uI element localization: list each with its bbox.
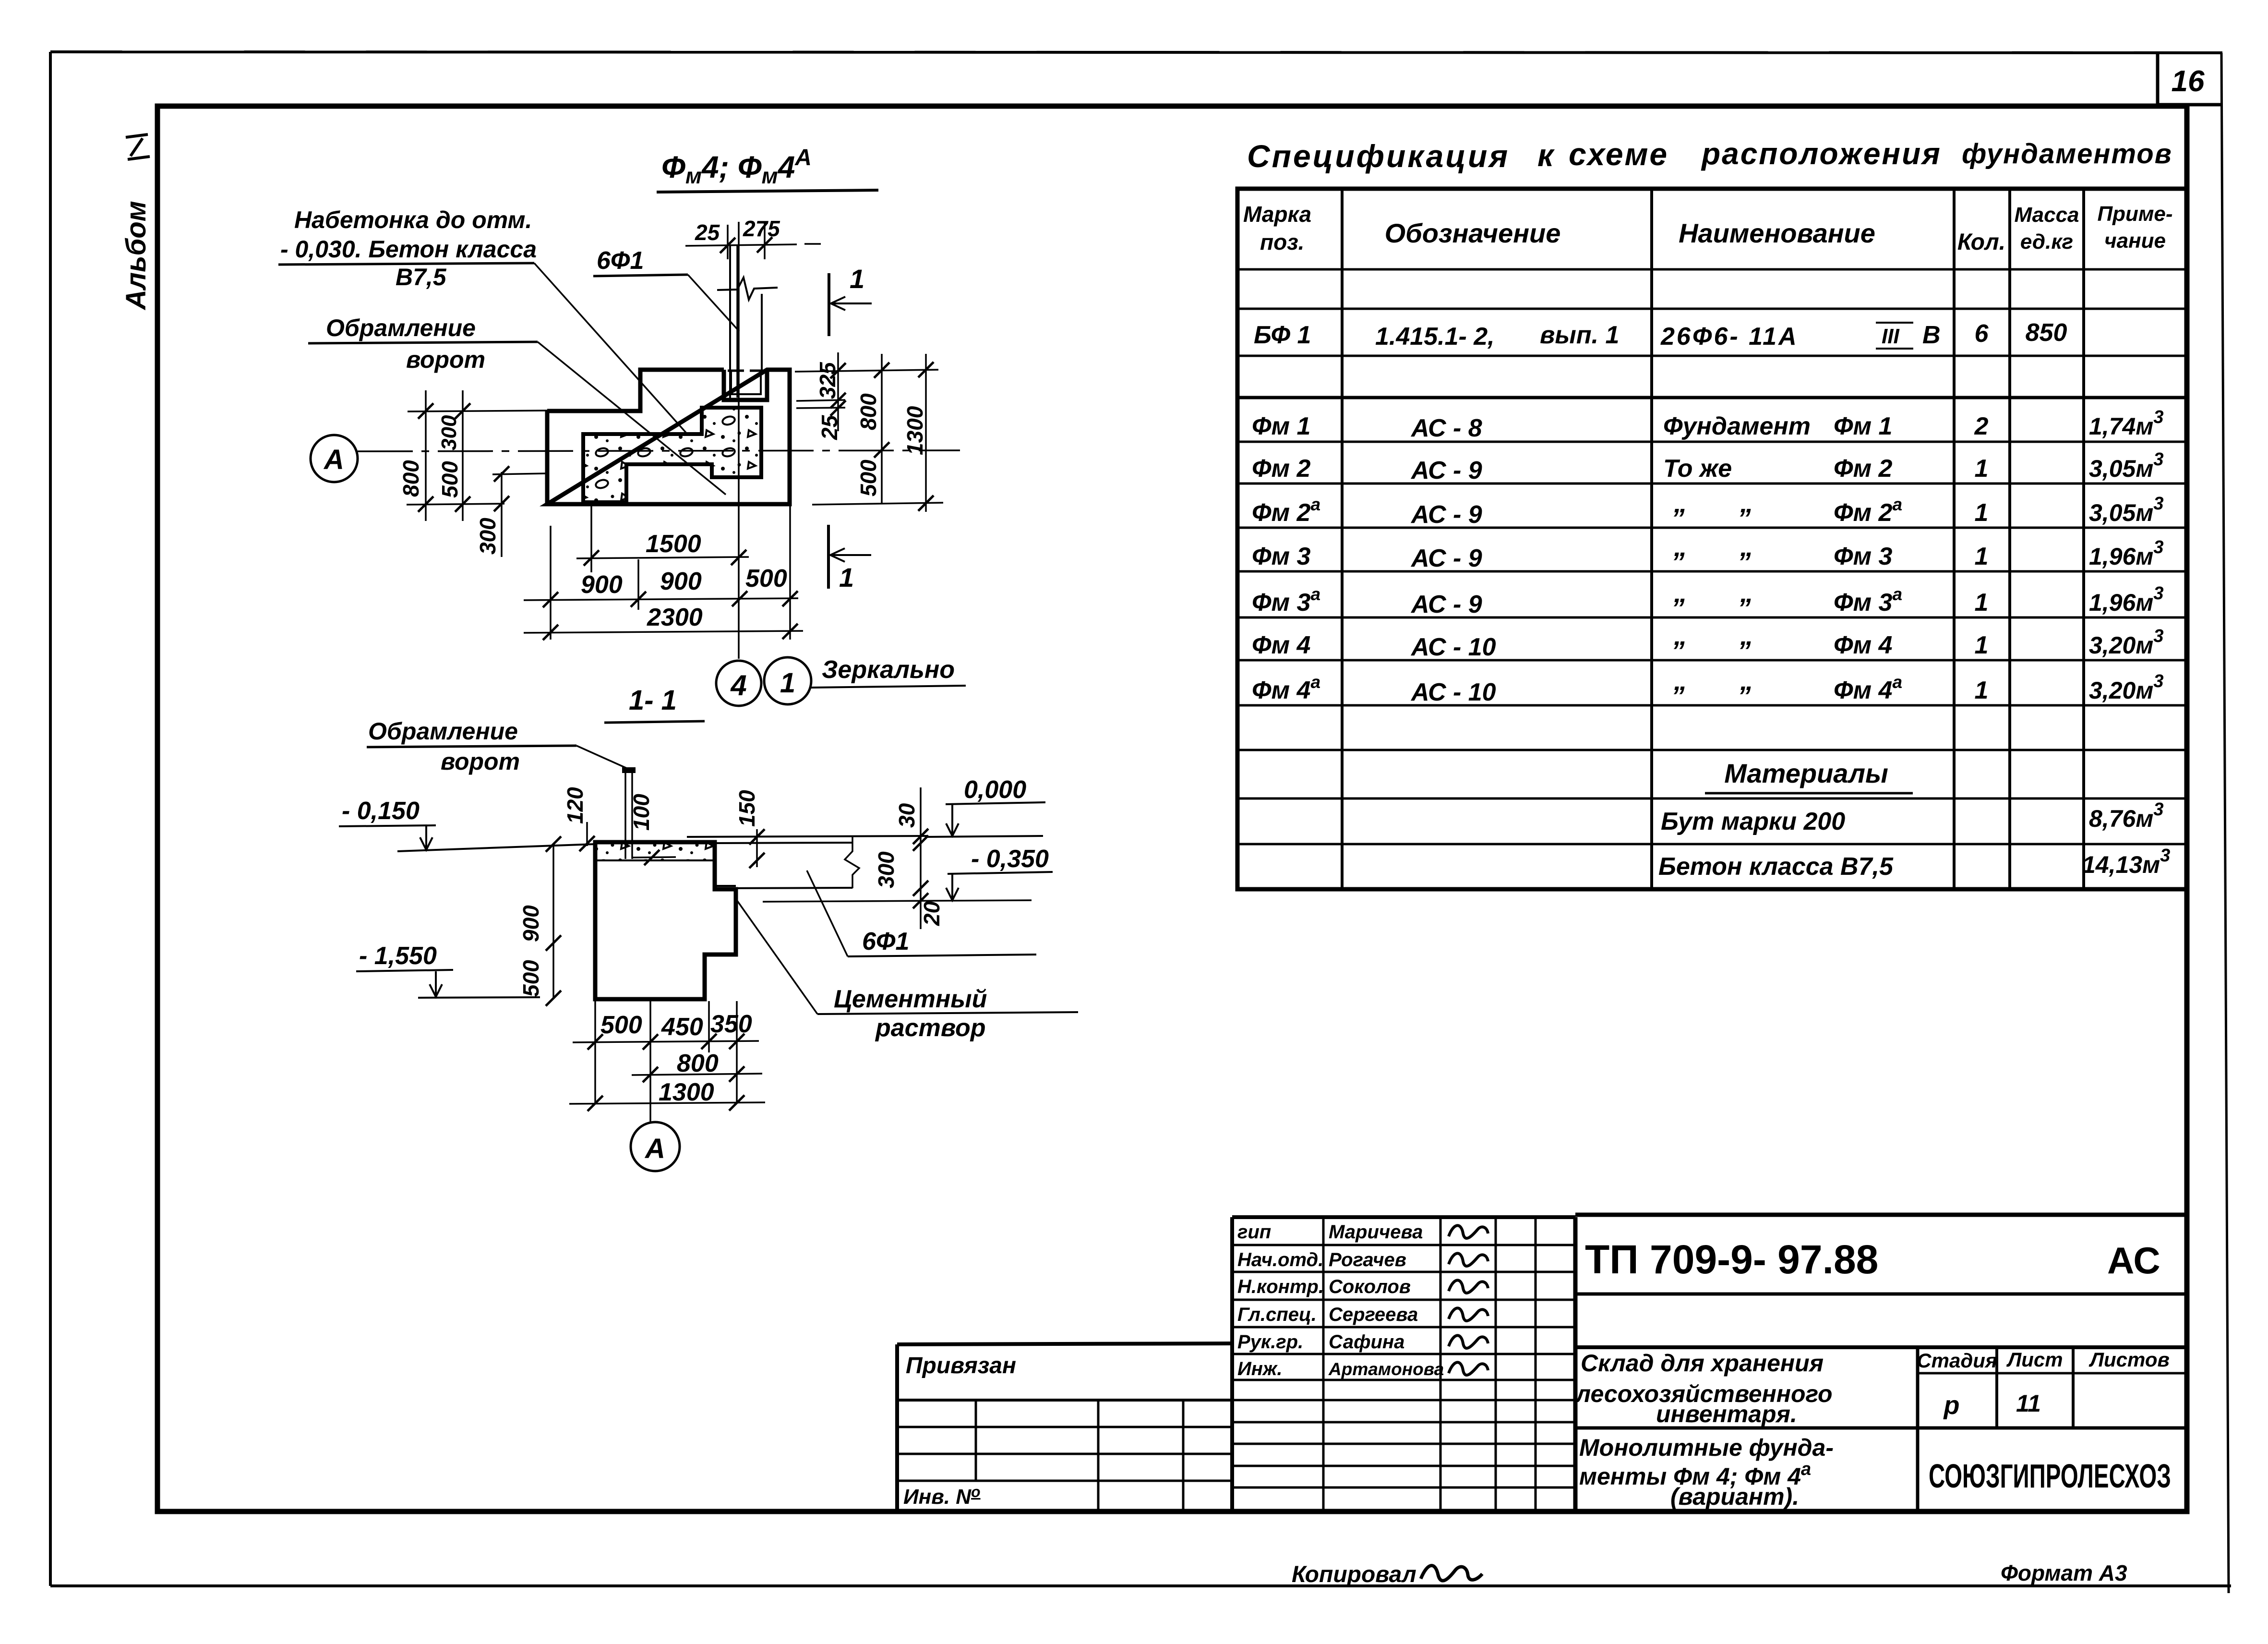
title block: Привязан box (897, 1343, 1232, 1511)
svg-text:Стадия: Стадия (1917, 1349, 1997, 1372)
svg-text:500: 500 (437, 461, 462, 498)
svg-text:1: 1 (1975, 455, 1989, 483)
plan: axis circle А (left) (311, 435, 358, 482)
svg-text:„: „ (1740, 620, 1753, 651)
section: right dims 30 / 300 / 20 (874, 787, 944, 929)
svg-text:16: 16 (2172, 65, 2205, 98)
svg-text:900: 900 (518, 905, 543, 942)
plan: vertical axis line through column (738, 222, 740, 659)
svg-text:800: 800 (856, 393, 881, 430)
svg-text:Соколов: Соколов (1329, 1276, 1411, 1297)
svg-text:А: А (323, 444, 344, 475)
svg-text:Н.контр.: Н.контр. (1237, 1276, 1324, 1297)
svg-text:ворот: ворот (441, 748, 520, 775)
svg-text:300: 300 (475, 518, 500, 555)
svg-text:1: 1 (850, 264, 864, 294)
svg-text:4: 4 (730, 669, 746, 701)
svg-text:275: 275 (743, 216, 780, 241)
svg-text:Фм 2a: Фм 2a (1834, 495, 1902, 527)
svg-text:СОЮЗГИПРОЛЕСХОЗ: СОЮЗГИПРОЛЕСХОЗ (1929, 1457, 2171, 1495)
svg-text:120: 120 (563, 787, 588, 824)
bottom: Копировал + signature (1292, 1562, 1482, 1587)
svg-text:гип: гип (1237, 1221, 1271, 1243)
svg-text:Копировал: Копировал (1292, 1562, 1416, 1587)
section: anchor bolt (622, 767, 636, 859)
svg-text:- 0,350: - 0,350 (971, 845, 1049, 873)
section: level mark -0,150 (339, 797, 436, 850)
svg-text:Монолитные фунда-: Монолитные фунда- (1579, 1434, 1834, 1461)
svg-text:Нач.отд.: Нач.отд. (1237, 1249, 1323, 1270)
svg-text:500: 500 (600, 1011, 642, 1039)
title block: right part grid (1575, 1215, 2187, 1511)
svg-text:- 0,150: - 0,150 (342, 797, 420, 825)
svg-text:850: 850 (2026, 319, 2067, 347)
section: level mark 0,000 (927, 776, 1045, 837)
plan: view circles 4 and 1 with Зеркально (716, 656, 966, 706)
svg-text:350: 350 (710, 1010, 752, 1038)
svg-text:25: 25 (695, 220, 720, 245)
svg-text:Альбом: Альбом (120, 201, 152, 311)
plan title Фм4; Фм4А (657, 145, 878, 192)
section: ground line left (397, 844, 595, 851)
svg-text:Фм 3a: Фм 3a (1252, 584, 1320, 616)
title block: handwritten signatures (1449, 1225, 1488, 1375)
svg-text:Лист: Лист (2006, 1348, 2063, 1371)
svg-text:Фм 4: Фм 4 (1834, 631, 1893, 659)
svg-text:6Ф1: 6Ф1 (597, 247, 644, 275)
svg-text:1: 1 (839, 562, 854, 592)
svg-text:Фм 4a: Фм 4a (1252, 672, 1320, 704)
svg-text:Бетон класса В7,5: Бетон класса В7,5 (1658, 853, 1894, 881)
svg-text:Рогачев: Рогачев (1329, 1249, 1406, 1270)
svg-text:Кол.: Кол. (1957, 230, 2005, 255)
svg-text:Обрамление: Обрамление (368, 718, 518, 745)
svg-text:500: 500 (745, 565, 787, 592)
label Обрамление ворот (section) (367, 718, 628, 775)
svg-text:6Ф1: 6Ф1 (862, 928, 909, 955)
svg-text:450: 450 (661, 1013, 703, 1041)
svg-text:Фм 3: Фм 3 (1252, 543, 1311, 570)
svg-text:Фм 1: Фм 1 (1834, 412, 1892, 440)
svg-text:БФ 1: БФ 1 (1254, 321, 1311, 349)
title block: stage/sheet headers (1917, 1348, 2170, 1420)
svg-text:500: 500 (518, 960, 543, 997)
section: foundation body outline (595, 842, 736, 999)
plan: left-side dimensions 300/800/500/300 (398, 390, 547, 557)
svg-text:АС - 9: АС - 9 (1410, 591, 1482, 618)
svg-text:раствор: раствор (875, 1014, 985, 1042)
svg-text:20: 20 (919, 901, 944, 926)
svg-text:„: „ (1673, 620, 1687, 651)
svg-text:„: „ (1740, 488, 1753, 518)
section: mortar joint on step (715, 886, 736, 889)
svg-text:инвентаря.: инвентаря. (1656, 1401, 1797, 1427)
plan: precast column 6Ф1 edges above socket (730, 246, 762, 399)
svg-text:расположения: расположения (1701, 136, 1942, 171)
svg-text:Рук.гр.: Рук.гр. (1237, 1331, 1303, 1353)
svg-text:1: 1 (1975, 589, 1989, 616)
svg-text:500: 500 (856, 459, 881, 496)
title block: project name (1575, 1350, 1833, 1427)
svg-text:Привязан: Привязан (906, 1353, 1016, 1378)
svg-text:поз.: поз. (1260, 230, 1304, 254)
section: label 6Ф1 with leader (807, 870, 1036, 956)
svg-text:АС - 8: АС - 8 (1410, 414, 1482, 442)
svg-text:АС: АС (2107, 1239, 2160, 1281)
svg-text:2: 2 (1974, 412, 1989, 440)
svg-text:„: „ (1673, 488, 1687, 518)
svg-text:26Ф6- 11А: 26Ф6- 11А (1660, 323, 1799, 351)
svg-text:„: „ (1673, 532, 1687, 562)
plan: section mark 1 (bottom) (828, 525, 871, 592)
svg-text:Обозначение: Обозначение (1385, 218, 1561, 248)
materials section (1658, 758, 2170, 881)
section: level mark -1,550 (356, 942, 540, 998)
svg-text:Фм 2a: Фм 2a (1252, 495, 1320, 527)
svg-text:300: 300 (437, 415, 461, 450)
svg-text:Спецификация: Спецификация (1247, 138, 1510, 174)
section: bottom dims 500/450/350, 800, 1300 (569, 1001, 765, 1124)
svg-text:к: к (1537, 137, 1555, 173)
svg-text:Фм4; Фм4А: Фм4; Фм4А (661, 145, 812, 188)
plan: axis A centerline (horizontal) (358, 450, 960, 451)
svg-text:ТП 709-9- 97.88: ТП 709-9- 97.88 (1585, 1237, 1878, 1282)
svg-text:„: „ (1740, 665, 1753, 696)
svg-text:Сергеева: Сергеева (1329, 1304, 1418, 1325)
svg-text:В: В (1922, 321, 1941, 349)
specification table title (1247, 136, 2172, 174)
svg-text:1: 1 (1975, 677, 1989, 704)
svg-text:100: 100 (629, 794, 654, 831)
row БФ1 (1254, 319, 2067, 351)
svg-text:30: 30 (894, 803, 919, 828)
svg-text:Инж.: Инж. (1237, 1358, 1283, 1379)
svg-text:То же: То же (1663, 455, 1732, 483)
svg-text:АС - 9: АС - 9 (1410, 457, 1482, 484)
svg-text:Фм 4a: Фм 4a (1834, 672, 1902, 704)
svg-text:900: 900 (660, 568, 702, 595)
sheet number box (16) (2158, 53, 2222, 106)
section: left vertical dims 120 / 900 / 500 (518, 787, 595, 1006)
plan: column break symbol (717, 278, 778, 300)
title block: signature rows texts (1237, 1221, 1444, 1379)
svg-text:800: 800 (398, 460, 423, 497)
svg-text:III: III (1882, 325, 1899, 348)
svg-text:1: 1 (1975, 631, 1989, 659)
svg-text:11: 11 (2016, 1390, 2041, 1417)
svg-text:„: „ (1673, 578, 1687, 608)
svg-text:1: 1 (1975, 499, 1989, 527)
section: concrete topping band (595, 842, 715, 860)
svg-text:Фм 2: Фм 2 (1252, 455, 1311, 483)
svg-text:2300: 2300 (647, 604, 703, 631)
svg-text:Гл.спец.: Гл.спец. (1237, 1304, 1317, 1325)
svg-text:325: 325 (815, 362, 840, 399)
svg-text:АС - 9: АС - 9 (1410, 501, 1482, 529)
section: dim 100 at bolt (629, 794, 676, 865)
inner drawing frame (157, 106, 2187, 1511)
svg-text:р: р (1943, 1391, 1960, 1420)
plan: monolithic concrete band (hatched) (583, 408, 761, 502)
svg-text:Сафина: Сафина (1329, 1331, 1404, 1353)
section: floor slab and beam БФ1 lines (687, 836, 1032, 902)
plan: hidden edge dashes across socket opening (728, 370, 765, 372)
svg-text:„: „ (1740, 578, 1753, 608)
svg-text:Фм 1: Фм 1 (1252, 412, 1310, 440)
svg-text:АС - 10: АС - 10 (1410, 633, 1496, 661)
svg-text:1.415.1- 2,: 1.415.1- 2, (1375, 323, 1495, 351)
svg-text:1: 1 (1975, 543, 1989, 570)
svg-text:вып. 1: вып. 1 (1540, 321, 1619, 349)
svg-text:Цементный: Цементный (834, 985, 987, 1013)
svg-text:ворот: ворот (406, 346, 485, 373)
svg-text:А: А (644, 1133, 665, 1164)
plan: top dimension 25 / 275 (685, 216, 821, 259)
plan: bottom dimensions 1500 / 900 900 500 / 2300 (524, 505, 803, 640)
section: dim 150 (734, 790, 765, 868)
svg-text:Формат А3: Формат А3 (2001, 1560, 2127, 1585)
table header texts (1243, 202, 2173, 255)
svg-text:„: „ (1740, 532, 1753, 562)
svg-text:Зеркально: Зеркально (822, 656, 955, 684)
title block: signature table grid (1232, 1217, 1575, 1511)
svg-text:1300: 1300 (902, 406, 927, 455)
svg-text:1500: 1500 (646, 530, 701, 558)
svg-text:Наименование: Наименование (1679, 218, 1875, 248)
label: Набетонка до отм. -0,030. Бетон класса В7,5 (278, 206, 537, 290)
svg-text:Бут марки 200: Бут марки 200 (1661, 808, 1845, 835)
svg-text:Материалы: Материалы (1724, 758, 1888, 788)
svg-text:Масса: Масса (2014, 203, 2079, 227)
plan: foundation outer outline (547, 370, 790, 504)
label 6Ф1 with leader (plan) (593, 247, 739, 331)
svg-text:схеме: схеме (1569, 136, 1668, 172)
svg-text:Приме-: Приме- (2097, 202, 2172, 226)
svg-text:Фм 3: Фм 3 (1834, 543, 1893, 570)
svg-text:АС - 9: АС - 9 (1410, 544, 1482, 572)
section title 1-1 (604, 685, 705, 723)
svg-text:0,000: 0,000 (964, 776, 1026, 804)
svg-text:Фм 2: Фм 2 (1834, 455, 1893, 483)
svg-text:900: 900 (581, 571, 623, 599)
svg-text:чание: чание (2104, 229, 2166, 253)
svg-text:- 0,030. Бетон класса: - 0,030. Бетон класса (280, 236, 537, 263)
svg-text:25: 25 (817, 414, 842, 440)
plan: section mark 1 (top) (829, 264, 872, 336)
svg-text:Артамонова: Артамонова (1328, 1359, 1444, 1379)
svg-text:В7,5: В7,5 (396, 264, 447, 290)
svg-text:Маричева: Маричева (1329, 1221, 1423, 1243)
svg-text:Инв. Nо: Инв. Nо (903, 1483, 981, 1509)
svg-text:1300: 1300 (659, 1078, 714, 1106)
svg-text:1: 1 (780, 667, 795, 699)
specification table grid (1237, 189, 2187, 889)
svg-text:800: 800 (677, 1050, 719, 1077)
leader from набетонка label to hatched band (534, 263, 686, 433)
svg-text:Фм 4: Фм 4 (1252, 631, 1311, 659)
title block: sheet name (1579, 1434, 1834, 1510)
svg-text:Склад для хранения: Склад для хранения (1581, 1350, 1824, 1377)
svg-text:фундаментов: фундаментов (1962, 138, 2172, 169)
leader from обрамление label into socket (538, 342, 726, 495)
svg-text:1- 1: 1- 1 (629, 685, 677, 716)
svg-text:Набетонка до отм.: Набетонка до отм. (294, 206, 532, 233)
svg-text:АС - 10: АС - 10 (1410, 678, 1496, 706)
svg-text:Марка: Марка (1243, 202, 1311, 227)
section: level mark -0,350 (946, 845, 1053, 900)
foundation rows Фм1..Фм4а (1252, 407, 2163, 706)
svg-text:ед.кг: ед.кг (2020, 230, 2073, 254)
svg-text:Фм 3a: Фм 3a (1834, 584, 1902, 616)
section: label Цементный раствор with leader (736, 899, 1078, 1042)
plan: socket inner wall line (731, 371, 761, 394)
plan: right-side dimensions 325/25, 800/500, 1300 (795, 352, 943, 512)
svg-text:- 1,550: - 1,550 (359, 942, 437, 970)
svg-text:Обрамление: Обрамление (326, 314, 476, 341)
label: Обрамление ворот (plan) (308, 314, 538, 373)
svg-text:300: 300 (874, 851, 899, 888)
svg-text:150: 150 (734, 790, 759, 827)
album label (Альбом I, rotated) (120, 134, 152, 311)
svg-text:„: „ (1673, 665, 1687, 696)
svg-text:6: 6 (1975, 320, 1989, 348)
svg-text:(вариант).: (вариант). (1670, 1483, 1799, 1510)
svg-text:Листов: Листов (2088, 1348, 2170, 1371)
section: axis circle А (631, 1122, 680, 1171)
svg-text:Фундамент: Фундамент (1663, 412, 1811, 440)
